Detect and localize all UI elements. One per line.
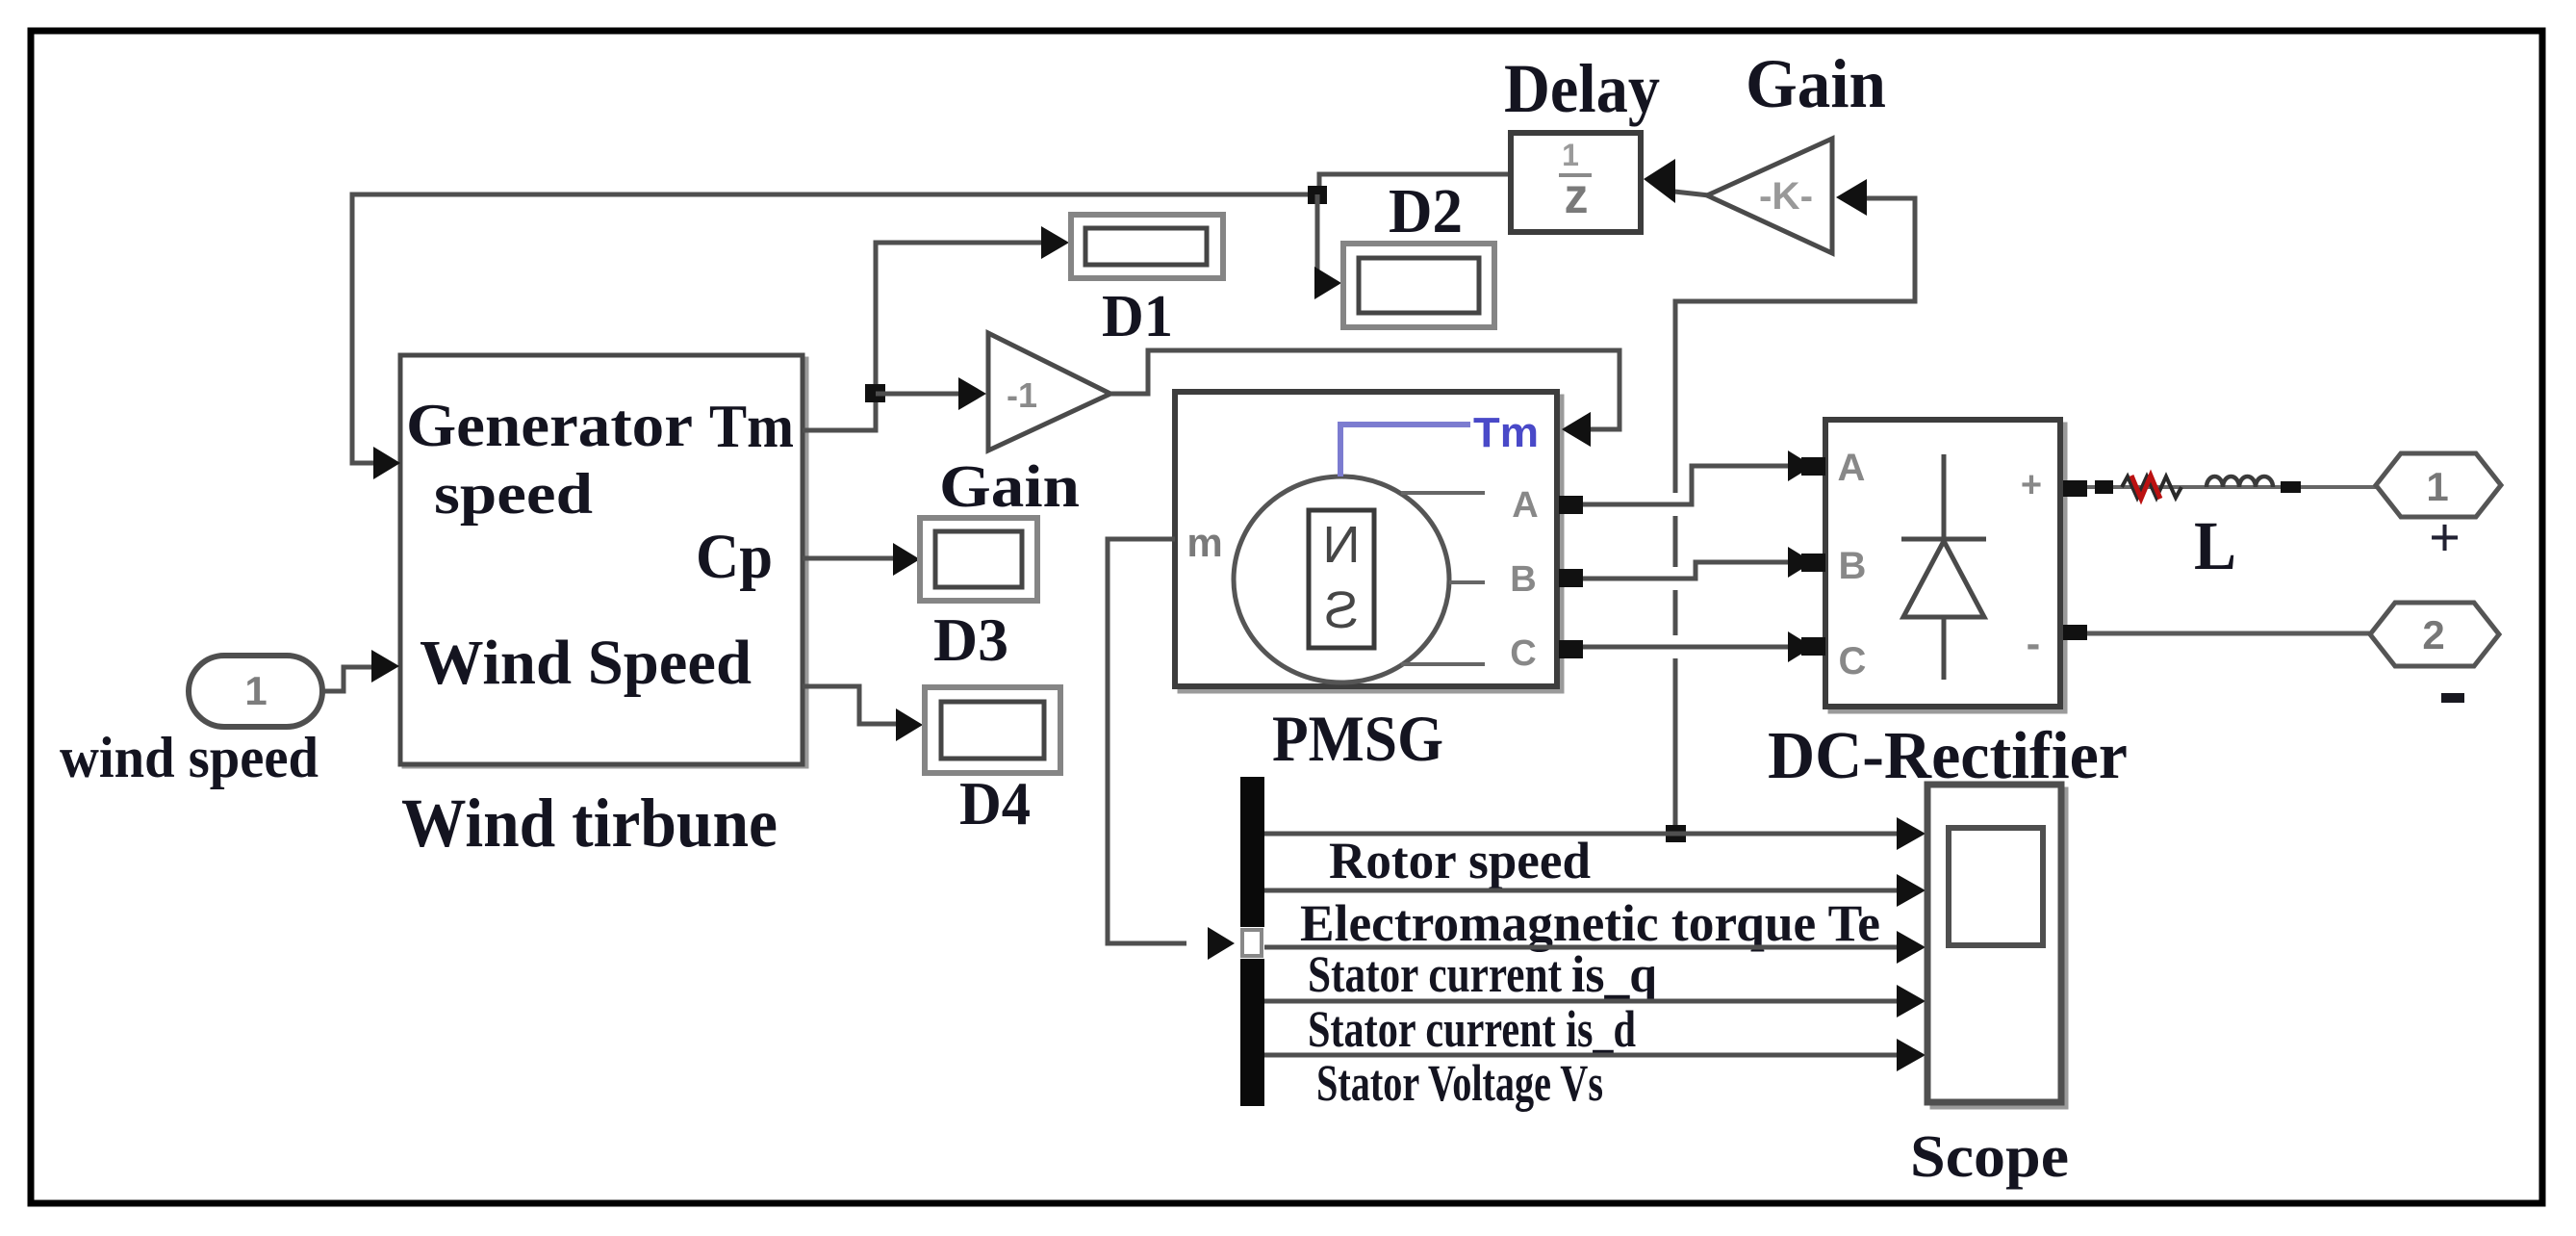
wire junction to -1 gain input	[876, 377, 986, 410]
svg-text:Cp: Cp	[696, 522, 773, 592]
junction at feedback/D2 branch	[1308, 186, 1327, 204]
junction Tm wire / -1 gain branch	[865, 384, 885, 402]
arrow into rectifier B	[1788, 547, 1813, 578]
wire feedback from Delay to Generator speed input	[352, 174, 1511, 479]
wire Cp output to D3	[803, 543, 920, 576]
svg-text:wind speed: wind speed	[60, 726, 319, 789]
arrow into rectifier C	[1788, 631, 1813, 662]
label Stator current is_q	[1308, 945, 1657, 1003]
svg-text:speed: speed	[434, 462, 593, 526]
wire demux out 4 to scope	[1264, 985, 1926, 1017]
svg-text:S: S	[1324, 581, 1359, 639]
block PMSG	[1175, 392, 1562, 691]
block Delay	[1511, 133, 1641, 232]
svg-text:1: 1	[1562, 138, 1579, 172]
block Wind tirbune	[400, 355, 806, 766]
svg-text:Delay: Delay	[1504, 50, 1660, 127]
svg-text:Stator current: Stator current	[1308, 945, 1562, 1003]
svg-text:Generator: Generator	[406, 391, 693, 459]
DC-Rectifier input port squares	[1801, 457, 1825, 656]
svg-text:Gain: Gain	[1746, 45, 1886, 122]
input port 1 (wind speed)	[189, 656, 322, 727]
svg-text:-: -	[2027, 620, 2041, 667]
wire PMSG B to rectifier B	[1583, 562, 1792, 579]
wire Gain output to Delay input	[1644, 159, 1709, 203]
block DC-Rectifier	[1825, 420, 2065, 711]
svg-text:-1: -1	[1007, 375, 1037, 415]
wire demux out 2 to scope	[1264, 874, 1926, 907]
svg-text:Gain: Gain	[939, 454, 1080, 520]
PMSG Tm input arrow	[1562, 412, 1591, 447]
svg-text:m: m	[1186, 520, 1222, 565]
wire demux out 1 (rotor speed) to scope	[1264, 817, 1926, 850]
junction gain branch / rotor speed wire	[1666, 825, 1686, 842]
svg-text:is_q: is_q	[1571, 945, 1657, 1003]
svg-text:1: 1	[2426, 464, 2448, 509]
display D3	[920, 518, 1037, 601]
wire PMSG m to demux input	[1108, 539, 1235, 960]
svg-text:N: N	[1323, 516, 1361, 574]
wire -1 gain output to PMSG Tm input	[1110, 350, 1620, 447]
svg-text:D1: D1	[1102, 284, 1173, 349]
svg-text:Wind Speed: Wind Speed	[420, 628, 752, 698]
blue Tm signal label and wire inside PMSG	[1340, 409, 1539, 476]
PMSG output port squares A B C	[1559, 496, 1583, 658]
svg-text:-K-: -K-	[1759, 175, 1813, 218]
svg-text:PMSG: PMSG	[1272, 702, 1443, 775]
wire rotor speed branch up to Gain input	[1675, 179, 1915, 825]
wire Tm output to D1	[803, 226, 1069, 430]
svg-text:Rotor speed: Rotor speed	[1329, 832, 1591, 889]
arrow into rectifier A	[1788, 451, 1813, 481]
svg-text:D2: D2	[1389, 176, 1463, 246]
wire PMSG C to rectifier C	[1583, 645, 1792, 650]
wire input1 to Wind Speed input	[322, 650, 399, 691]
svg-text:B: B	[1839, 545, 1867, 587]
svg-text:z: z	[1565, 168, 1589, 224]
demux bar	[1237, 777, 1267, 1106]
wire PMSG A to rectifier A	[1583, 466, 1792, 504]
svg-text:D4: D4	[959, 769, 1031, 837]
display D4	[925, 687, 1060, 773]
series RL branch (L)	[2087, 476, 2376, 499]
svg-text:C: C	[1839, 640, 1867, 682]
wire demux out 5 to scope	[1264, 1039, 1926, 1071]
svg-text:+: +	[2429, 506, 2461, 569]
svg-text:L: L	[2194, 507, 2236, 584]
svg-text:Tm: Tm	[709, 392, 794, 460]
output port 2	[2370, 603, 2499, 666]
svg-text:2: 2	[2422, 612, 2444, 657]
svg-text:+: +	[2021, 465, 2042, 505]
svg-text:A: A	[1838, 447, 1866, 489]
display D1	[1071, 215, 1223, 278]
svg-text:D3: D3	[933, 605, 1008, 674]
svg-text:Wind tirbune: Wind tirbune	[401, 785, 778, 862]
DC-Rectifier output port squares	[2063, 480, 2087, 640]
output port 1	[2376, 453, 2501, 517]
gain block -1	[988, 333, 1110, 451]
svg-text:Scope: Scope	[1910, 1124, 2069, 1190]
svg-text:B: B	[1510, 559, 1536, 600]
wire demux out 3 to scope	[1264, 931, 1926, 964]
svg-text:Stator current is_d: Stator current is_d	[1308, 1000, 1636, 1058]
svg-text:A: A	[1512, 485, 1538, 526]
wire junction to display D2	[1314, 194, 1341, 299]
svg-text:Electromagnetic torque Te: Electromagnetic torque Te	[1300, 894, 1880, 952]
svg-text:Tm: Tm	[1473, 409, 1539, 456]
wire rectifier minus to port 2	[2087, 631, 2370, 636]
svg-text:C: C	[1510, 633, 1536, 674]
display D2	[1343, 244, 1494, 327]
label minus	[2441, 693, 2464, 703]
gain block -K-	[1707, 139, 1832, 253]
wire output3 to D4	[803, 686, 923, 741]
svg-text:1: 1	[244, 668, 267, 713]
block Scope	[1927, 785, 2066, 1107]
svg-text:Stator Voltage Vs: Stator Voltage Vs	[1316, 1054, 1603, 1112]
